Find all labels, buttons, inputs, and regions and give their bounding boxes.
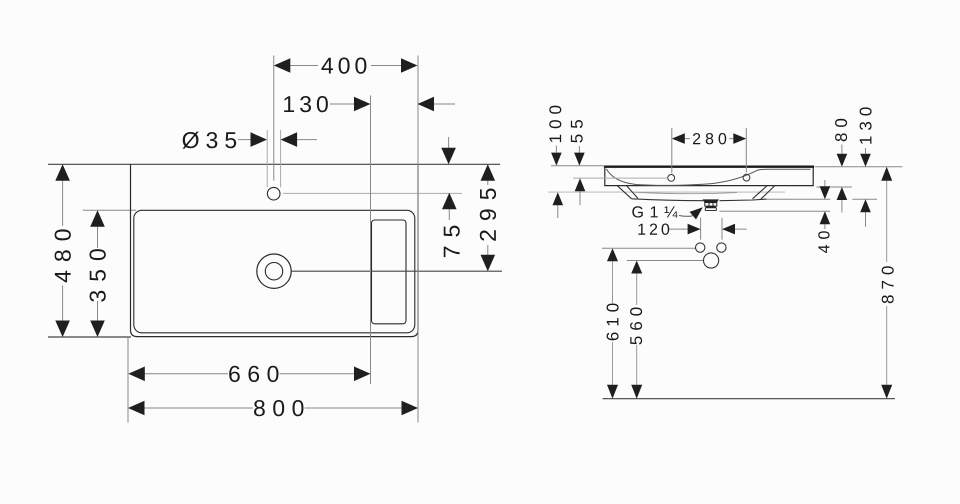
dimension 130 (side) (860, 107, 872, 226)
mounting hole circle right (side) (717, 243, 726, 252)
280 extension lines (672, 128, 747, 173)
shelf rectangle (plan right) (372, 220, 407, 324)
O35 extension line left (266, 130, 268, 187)
front extension line (plan, left) (48, 336, 131, 338)
right vertical extension line (basin right edge) (417, 56, 419, 423)
100 reference line (long) (548, 191, 785, 193)
G 1 1/4 label and leader (632, 206, 702, 219)
mounting hole circle left (side) (696, 243, 705, 252)
560 reference line (627, 260, 704, 262)
slab bottom extension line right (816, 186, 852, 188)
right skirt diagonals (side view) (753, 186, 775, 200)
dimension 610 (side) (607, 248, 619, 399)
dimension 130 (284, 96, 455, 112)
dimension 295 (480, 164, 496, 271)
dimension 350 (89, 210, 105, 337)
dimension 80 (side) (835, 119, 847, 213)
side view slab outline (604, 167, 814, 186)
dimension 100 (side) (549, 106, 563, 218)
610 reference line (602, 247, 695, 249)
dimension 40 (side) (818, 180, 830, 253)
dimension O35 (182, 132, 317, 149)
120 extension lines (701, 218, 722, 240)
tap hole centerline to right (283, 192, 462, 194)
bowl bottom line (side view) (632, 199, 767, 201)
55 reference line (tap hole height) (573, 177, 668, 179)
slab top-left extension line (551, 165, 605, 167)
basin outer outline (plan) (131, 164, 419, 336)
drain centerline to right (292, 270, 502, 272)
350 reference extension line (83, 209, 136, 211)
dimension 480 (55, 164, 71, 337)
vertical extension line at 660 (through basin) (370, 96, 372, 385)
slab top extension line right (815, 166, 903, 168)
drain outlet circle (side) (704, 253, 719, 268)
side view tap hole circle 2 (743, 174, 750, 181)
floor line (603, 398, 896, 400)
dimension 120 (side) (638, 224, 746, 235)
side view inner bowl curve and shelf line (606, 169, 810, 185)
dimension 75 (lower arrow and label) (442, 193, 460, 257)
drain bottom extension line (720, 210, 831, 212)
drain outer circle (plan) (257, 254, 291, 288)
left skirt diagonals (side view) (617, 186, 637, 199)
dimension 560 (side) (630, 261, 642, 399)
dimension 870 (side) (881, 167, 894, 399)
faint bowl underside curve (634, 192, 737, 194)
dimension 55 (side) (571, 120, 585, 205)
bowl bottom extension line right (766, 198, 877, 200)
drain inner circle (plan) (265, 263, 282, 280)
dimension 280 (side) (672, 133, 747, 144)
side view tap hole circle 1 (668, 175, 675, 182)
dimension 800 (128, 400, 418, 416)
left vertical extension line (800/660) (127, 337, 129, 423)
drain tailpiece (side view) (703, 199, 720, 210)
wall line (plan view back edge) (48, 163, 500, 165)
tap hole vertical extension line (400 dim) (273, 56, 275, 181)
75 upper arrow (down to wall line) (441, 137, 456, 164)
tap hole circle (plan) (267, 187, 280, 200)
dimension 660 (128, 366, 370, 382)
basin inner rim outline (plan) (134, 210, 415, 332)
dimension 400 (274, 57, 418, 73)
O35 extension line right (280, 130, 282, 187)
